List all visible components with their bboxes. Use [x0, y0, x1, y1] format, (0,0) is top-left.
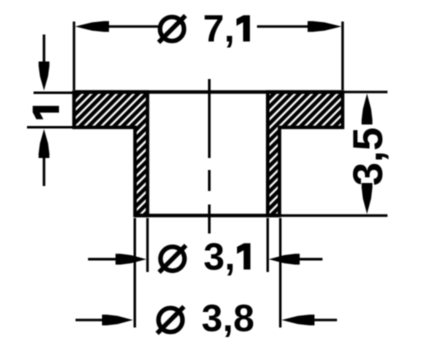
dimension Ø 3,8 : diameter symbol: [157, 307, 184, 334]
dimension Ø 3,8 : extension line left: [134, 218, 137, 328]
dimension Ø 7,1 : dimension line: [106, 25, 310, 28]
dimension Ø 7,1 : arrow right: [308, 21, 342, 32]
svg-text:3,: 3,: [204, 237, 236, 279]
dimension 1 : value text (rotated): [33, 106, 59, 119]
dimension 3,5 : upper arrow (pointing up): [362, 94, 373, 125]
top edge line across hole: [74, 90, 343, 94]
svg-text:3,8: 3,8: [202, 298, 255, 340]
dimension 3,5 : lower arrow (pointing down): [362, 183, 373, 214]
dimension Ø 3,1 : leader right with arrow: [295, 258, 323, 261]
dimension 1 : lower arrow (pointing up): [43, 156, 46, 186]
dimension Ø 3,8 : leader left with arrow: [76, 319, 107, 322]
dimension Ø 3,1 : diameter symbol: [159, 245, 186, 272]
flange/barrel section right (hatched): [268, 92, 343, 216]
dimension Ø 3,8 : extension line right: [279, 218, 282, 328]
bottom edge line of barrel across hole: [135, 214, 280, 218]
dimension Ø 7,1 : arrow left: [75, 21, 109, 32]
dimension 1 : extension line bottom: [27, 126, 73, 129]
dimension Ø 7,1 : extension line right: [341, 22, 344, 91]
dimension Ø 7,1 : diameter symbol: [159, 16, 186, 43]
dimension Ø 3,1 : extension line right: [266, 218, 269, 272]
svg-text:7,: 7,: [203, 9, 235, 51]
dimension Ø 3,1 : extension line left: [146, 218, 149, 272]
dimension Ø 3,8 : leader right with arrow: [308, 319, 337, 322]
flange/barrel section left (hatched): [74, 92, 148, 216]
dimension 3,5 : extension line bottom: [281, 214, 388, 217]
dimension 3,5 : extension line top: [344, 91, 388, 94]
dimension Ø 7,1 : extension line left: [73, 22, 76, 91]
svg-text:3,5: 3,5: [344, 127, 391, 185]
dimension 1 : upper arrow (pointing down): [43, 35, 46, 65]
dimension 1 : extension line top: [34, 92, 74, 95]
dimension Ø 3,1 : leader left with arrow: [88, 258, 120, 261]
centerline (dash-dot): [208, 79, 211, 234]
